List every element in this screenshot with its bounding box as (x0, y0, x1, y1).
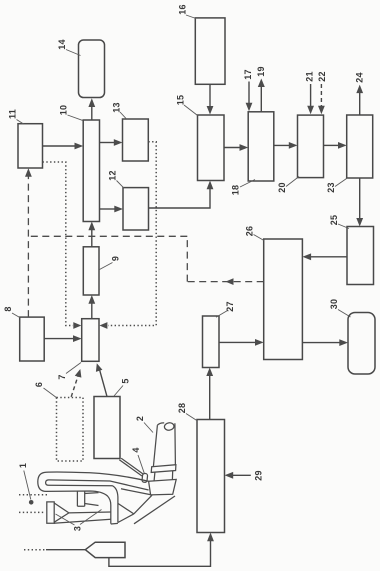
svg-text:17: 17 (243, 69, 253, 79)
block 18 (230, 112, 273, 195)
venturi cone left (47, 502, 111, 523)
block 14 (57, 39, 105, 97)
svg-text:15: 15 (175, 95, 185, 105)
svg-text:11: 11 (7, 109, 17, 119)
block 27 (203, 301, 236, 367)
venturi throat right (118, 495, 175, 524)
arrow 9 to 10 (88, 222, 95, 247)
dashed arrow 6 to 7 (71, 369, 81, 397)
svg-text:29: 29 (253, 470, 263, 480)
sensor nub 4 (131, 447, 148, 482)
svg-text:12: 12 (107, 170, 117, 180)
label 3 (56, 510, 102, 532)
line 12 to 15 (149, 181, 214, 209)
svg-text:26: 26 (244, 226, 254, 236)
block 9 (83, 247, 120, 295)
block 13 (111, 102, 148, 161)
block 10 (58, 105, 99, 222)
block 30 (329, 299, 375, 374)
dashed feedback from 26 to 11 and 8 (25, 168, 264, 317)
dotted pointers at intake (19, 495, 49, 513)
signal 24 out of 23 (354, 72, 364, 115)
svg-text:2: 2 (135, 416, 145, 421)
svg-text:28: 28 (177, 403, 187, 413)
signal 21 into 20 (304, 71, 314, 114)
fuel tag pentagon (24, 542, 125, 557)
dotted line 13 to 7 (99, 142, 156, 329)
svg-text:14: 14 (57, 39, 67, 49)
svg-text:9: 9 (110, 256, 120, 261)
block 28 (177, 403, 225, 533)
signal 19 out of 18 (256, 66, 266, 112)
svg-text:6: 6 (34, 382, 44, 387)
block 8 (3, 306, 44, 361)
arrow 15 to 18 (224, 144, 248, 151)
wire from 5 to probe (119, 458, 143, 476)
block 5 (94, 378, 130, 458)
svg-text:3: 3 (72, 526, 82, 531)
svg-text:1: 1 (18, 463, 28, 468)
block 20 (277, 115, 324, 193)
block 15 (175, 95, 224, 181)
block 11 (7, 109, 42, 168)
svg-text:18: 18 (230, 185, 240, 195)
svg-text:21: 21 (304, 71, 314, 81)
arrow 10 to 12 (100, 206, 124, 213)
block 7 (57, 319, 99, 380)
line from mixer to 28 (109, 533, 214, 567)
svg-text:25: 25 (329, 215, 339, 225)
nozzle throat middle (77, 492, 98, 507)
arrow 18 to 20 (274, 142, 298, 149)
svg-text:24: 24 (354, 72, 364, 82)
svg-text:8: 8 (3, 306, 13, 311)
svg-text:23: 23 (326, 182, 336, 192)
svg-text:4: 4 (131, 447, 141, 452)
arrow 23 to 25 (356, 178, 363, 227)
injector probe 2 (135, 416, 176, 495)
svg-text:27: 27 (225, 301, 235, 311)
block 6 dotted (34, 382, 83, 461)
svg-text:22: 22 (317, 71, 327, 81)
arrow 8 to 7 (44, 335, 81, 342)
intake hairpin tube (38, 472, 151, 524)
label 1 with dot (18, 463, 34, 505)
arrow 20 to 23 (324, 142, 347, 149)
svg-text:20: 20 (277, 182, 287, 192)
arrow 11 to 10 (43, 143, 84, 150)
arrow 28 to 27 (206, 368, 213, 420)
block 26 (244, 226, 302, 360)
arrow 7 to 9 (88, 295, 95, 319)
signal 22 into 20 (317, 71, 327, 114)
svg-text:30: 30 (329, 299, 339, 309)
block 16 (177, 4, 225, 84)
svg-text:13: 13 (111, 102, 121, 112)
arrow 25 to 26 (302, 253, 347, 260)
svg-text:5: 5 (120, 378, 130, 383)
dotted line 11 to 7 (43, 162, 82, 329)
svg-text:7: 7 (57, 374, 67, 379)
arrow 5 to 7 (96, 363, 107, 396)
block 23 (326, 115, 373, 193)
svg-text:19: 19 (256, 66, 266, 76)
arrow 27 to 26 (219, 339, 264, 346)
arrow 10 to 13 (100, 139, 123, 146)
arrow 16 to 15 (207, 84, 214, 114)
arrow 10 to 14 (88, 98, 95, 120)
signal 29 into 28 (225, 470, 264, 480)
svg-text:10: 10 (58, 105, 68, 115)
block 12 (107, 170, 148, 230)
svg-text:16: 16 (177, 4, 187, 14)
block 25 (329, 215, 374, 285)
arrow 26 to 30 (302, 339, 348, 346)
signal 17 into 18 (243, 69, 253, 111)
